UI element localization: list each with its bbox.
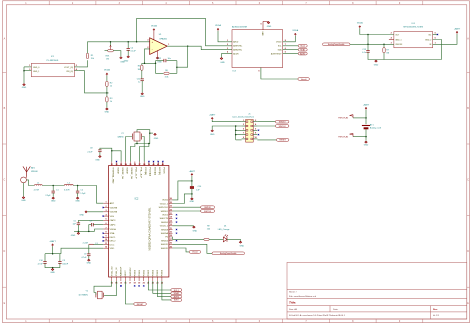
svg-text:GND: GND [220,62,225,64]
ground crystal [154,133,157,135]
op-amp negative rail pin [157,50,159,56]
svg-text:SH0DA: SH0DA [161,232,169,235]
label SWCLK at J1 [275,125,289,128]
ground C5C7 rail [77,230,79,233]
svg-text:File: nanoSense-Motion.sch: File: nanoSense-Motion.sch [289,295,317,298]
svg-text:PWR_FLAG: PWR_FLAG [338,135,348,138]
capacitor C11 [141,79,144,81]
svg-text:N52832-QFAA-CIAAE0-R7-STD-VBL: N52832-QFAA-CIAAE0-R7-STD-VBL [148,207,152,251]
capacitor C9 [87,254,90,256]
svg-text:12: 12 [105,247,107,249]
svg-text:VDD: VDD [110,248,115,250]
svg-text:P0902: P0902 [144,269,146,276]
wire ADC SDA to label [283,49,299,51]
ground IC1 [23,84,26,86]
svg-text:VDDA: VDDA [104,69,110,72]
svg-text:10: 10 [255,137,257,139]
junction opamp output [187,45,189,47]
svg-text:VDDA: VDDA [110,228,117,231]
svg-text:9: 9 [243,137,244,139]
svg-text:35: 35 [129,164,131,166]
capacitor C2 [77,186,79,191]
wire J1 pin2 to SWDIO [257,121,275,123]
svg-text:GND_1: GND_1 [33,71,39,73]
svg-text:36: 36 [134,164,136,166]
svg-text:GND: GND [154,138,159,140]
inductor L3 [89,243,94,246]
wire bottom to SDA1 [153,281,171,293]
resistor R9 [204,238,209,240]
svg-text:GND: GND [22,87,27,89]
svg-text:11: 11 [170,228,172,230]
wire ADC ALERT to label [283,53,299,55]
svg-text:9: 9 [260,24,261,26]
svg-text:DCC: DCC [110,245,115,247]
svg-text:GND: GND [240,246,245,248]
svg-text:18: 18 [134,283,136,285]
wire NRST to RESET label [125,281,133,304]
svg-text:PTA_+B_P: PTA_+B_P [139,167,142,178]
connector J1 body [246,120,254,143]
svg-text:SWDIO: SWDIO [279,121,286,123]
svg-text:10: 10 [170,232,172,234]
svg-text:13: 13 [170,220,172,222]
wire J1 odd tie [235,126,237,140]
wire MCU CAP4 to C7 [93,224,103,226]
wire +BATT rail down [52,246,54,253]
junction C2 [77,185,79,187]
svg-text:ON/OFF: ON/OFF [395,44,403,46]
no-connect MCU bottom pins [120,285,121,286]
label AnalogPowerEnable wire [350,43,394,45]
wire MCU to R9 [173,237,204,240]
antenna AE1 [23,166,30,176]
MCU bottom pin stubs [111,277,113,281]
wire C5 C7 gnd rail [77,225,79,232]
svg-text:P003[4]: P003[4] [144,167,146,175]
junction pwr flag2 [365,136,367,138]
wire R2 to junction [106,87,108,97]
label SDA1 bottom [171,292,182,295]
wire R5 top [142,62,145,64]
svg-text:3.3nH: 3.3nH [64,189,70,191]
svg-text:P0025: P0025 [163,167,165,174]
junction C13 on enable rail [367,44,369,46]
wire MCU to crystal Y1 right [105,281,117,296]
wire C13 to gnd rail [368,52,442,59]
svg-text:IC2: IC2 [135,198,139,201]
wire C9 gnd [88,256,90,259]
resistor R7 [383,44,385,47]
svg-text:5: 5 [105,219,106,221]
label AnalogPowerEnable top [323,43,351,46]
svg-text:WAKEUP: WAKEUP [120,266,123,276]
svg-text:23: 23 [170,206,172,208]
label ADR0 bottom [171,295,182,298]
svg-text:10: 10 [105,239,107,241]
wire MCU VDD to +BATT rail [61,248,103,254]
wire crystal gnd tap [150,132,153,134]
wire C4 to gnd [127,50,129,55]
flag PWR_FLAG bottom [353,136,366,138]
wire LED to gnd [227,239,241,241]
svg-text:C: C [467,179,469,182]
svg-text:38: 38 [143,164,145,166]
wire MCU VDD to +BATT C14 [173,181,192,200]
svg-text:P0900: P0900 [134,269,136,276]
crystal Y2 body [134,132,140,141]
junction pwr flag1 [365,117,367,119]
svg-text:2: 2 [255,120,256,122]
svg-text:VDD1: VDD1 [162,215,169,217]
ground MCU right pin [193,226,196,228]
svg-text:VDD0_1: VDD0_1 [160,226,169,228]
svg-text:1: 1 [105,202,106,204]
svg-text:1: 1 [243,120,244,122]
svg-text:27: 27 [170,239,172,241]
MCU top pin stubs [111,162,113,166]
svg-text:100nF: 100nF [62,264,68,266]
svg-text:5: 5 [243,128,244,130]
svg-text:VDDPA: VDDPA [110,211,118,214]
svg-text:VDDA: VDDA [292,29,298,32]
svg-text:Id: 1/1: Id: 1/1 [433,315,440,317]
svg-text:KiCad E.D.A. eeschema 5.0.2-b: KiCad E.D.A. eeschema 5.0.2-bee76a0175ub… [289,314,346,317]
svg-text:SWDIO: SWDIO [204,207,211,209]
svg-text:25: 25 [170,246,172,248]
J1 pin6 no-connect [258,130,259,131]
battery BT1 plates [362,126,370,129]
svg-text:GND: GND [190,201,195,203]
svg-text:VDDRF_0A: VDDRF_0A [121,167,124,179]
wire C2 gnd [77,193,79,197]
svg-text:ADR0: ADR0 [300,52,305,55]
svg-text:+BATT: +BATT [189,170,196,173]
ground divider [106,108,109,110]
svg-text:PCB_+B_P: PCB_+B_P [135,167,137,179]
svg-text:SH0CK: SH0CK [161,248,169,250]
svg-text:Sheet: /: Sheet: / [289,290,297,293]
wire MCU DCC to L3 [93,244,103,246]
label SDA1 [298,48,307,51]
wire IC1 gnd [23,67,25,83]
svg-text:P0904: P0904 [153,269,155,276]
svg-text:SDA1: SDA1 [300,48,305,51]
svg-text:GND: GND [140,96,145,98]
svg-text:10n: 10n [168,58,171,60]
ground C9 [88,259,91,261]
MCU right pin stubs [169,199,173,201]
ground C1 [52,197,55,199]
ground battery [365,141,368,143]
svg-text:1: 1 [168,44,169,46]
svg-text:RESET: RESET [137,304,144,306]
svg-text:1k: 1k [110,86,112,88]
svg-text:GND: GND [210,134,215,136]
op-amp power pin VDDA [153,31,155,40]
inductor L2 [64,184,73,185]
no-connect MCU left pin4 [103,215,104,216]
wire MCU CAP3 to C5 [78,220,103,222]
ADC left pin stubs [226,41,232,43]
MCU left pin stubs [103,202,108,204]
svg-text:SIP32431DR3-T1GE3: SIP32431DR3-T1GE3 [403,27,424,29]
svg-text:42: 42 [162,163,164,166]
svg-text:SH0CT5: SH0CT5 [160,218,169,220]
resistor R2 [106,81,108,86]
ground antenna [22,197,25,199]
svg-text:DVDD: DVDD [276,42,282,44]
svg-text:39: 39 [148,164,150,166]
svg-text:GND_2: GND_2 [425,39,431,41]
wire cap rail bottom [45,263,60,267]
svg-text:AINN/VIN-: AINN/VIN- [233,49,242,52]
wire bottom to SCL1 [148,281,171,290]
svg-text:B023[1]: B023[1] [158,167,160,175]
ground C8 [99,156,102,158]
wire C13 from VDDA rail [367,35,369,51]
svg-text:1.2pF: 1.2pF [80,193,86,195]
svg-text:XTAL: XTAL [110,232,116,235]
no-connect right pin10 [176,229,177,230]
svg-text:19: 19 [138,283,140,285]
svg-text:31: 31 [111,164,113,166]
svg-text:CAP3: CAP3 [110,219,116,222]
svg-text:4.7uF: 4.7uF [38,264,44,266]
svg-text:C: C [4,179,6,182]
ground ADC ADDR [220,58,223,60]
svg-text:GND_1: GND_1 [395,39,401,41]
trimmer RV1 body [108,50,114,52]
svg-text:32MHz: 32MHz [117,137,123,139]
label SCL1 bottom [171,289,182,292]
label AnalogPowerEnable at MCU [212,252,245,255]
svg-text:SCL1: SCL1 [174,290,180,292]
wire C11 to gnd [141,81,143,93]
svg-text:7: 7 [105,227,106,229]
svg-text:GND: GND [51,200,56,202]
svg-text:2.2uH: 2.2uH [83,242,89,244]
crystal Y1 body [98,291,103,299]
svg-text:Conn_02x05_Odd_Even: Conn_02x05_Odd_Even [232,117,254,119]
svg-text:4.7uF: 4.7uF [81,257,87,259]
svg-text:XTAL_SO: XTAL_SO [111,266,114,276]
resistor R3 [106,97,108,102]
regulator IC1 body [31,63,74,77]
svg-text:8: 8 [255,133,256,135]
wire R7 to gnd rail [383,53,385,60]
svg-text:20: 20 [143,283,145,285]
svg-text:GND: GND [261,31,263,36]
svg-text:9: 9 [258,71,259,73]
label Vana0 at MCU [189,251,201,254]
wire ADC DVDD to VDDA [283,36,296,42]
wire feedback to output [177,46,188,67]
svg-text:2.2uF: 2.2uF [87,151,93,153]
svg-text:ADDR: ADDR [233,52,239,55]
wire L1 to L2 [42,185,64,187]
label Vana0 below ADC [298,78,310,81]
svg-text:8: 8 [105,232,106,234]
wire J1 pin1 to +BATT [212,120,241,122]
svg-text:35: 35 [170,202,172,204]
svg-text:SWDIO: SWDIO [161,211,169,213]
wire MCU to crystal Y1 left [94,281,112,292]
wire battery top [365,110,367,125]
ADC top gnd pin [263,21,269,29]
svg-text:VSS: VSS [110,216,115,218]
ground RV1 [120,57,123,59]
wire crystal left terminal [126,137,133,162]
svg-text:GND: GND [364,144,369,146]
wire bottom to ADR0 [157,281,170,297]
svg-text:Vana0: Vana0 [301,79,308,81]
power +BATT at battery [365,107,367,110]
wire feedback loop bottom with R6 [156,72,164,74]
svg-text:11: 11 [105,243,107,245]
label SCL1 [298,44,307,47]
ground J1 [211,130,214,132]
svg-text:PL-N823-ES: PL-N823-ES [47,60,59,62]
svg-text:AnalogPowerEnable: AnalogPowerEnable [220,252,236,255]
svg-text:Rev:: Rev: [433,309,438,311]
svg-text:+BATT: +BATT [209,114,216,117]
capacitor C14 [190,186,194,188]
label SWDIO at J1 [275,120,289,123]
label RESET at J1 [276,139,289,142]
wire IC4 GND2 to rail [433,40,442,60]
svg-text:OPA365: OPA365 [159,38,168,41]
svg-text:D: D [4,250,6,253]
wire VDDA to IC4 OUT [360,28,394,34]
svg-text:VOUT_(S): VOUT_(S) [64,67,73,69]
svg-text:+BATT: +BATT [454,27,461,30]
svg-text:7: 7 [243,133,244,135]
wire C14 gnd [191,189,193,198]
svg-text:6: 6 [105,223,106,225]
svg-text:SH0D2: SH0D2 [161,240,169,242]
wire feedback loop left [155,61,157,74]
no-connect right pin27 [176,240,177,241]
svg-text:32: 32 [115,164,117,166]
wire MCU to SWDIO label [173,206,201,208]
svg-text:SWDIO2: SWDIO2 [130,267,132,276]
capacitor C4 [127,42,129,48]
svg-text:1k: 1k [110,101,112,103]
svg-text:Vana0: Vana0 [192,252,199,254]
wire MCU left gnd pin [86,211,103,213]
wire crystal right terminal [142,137,145,162]
svg-text:VDDA: VDDA [215,24,221,27]
svg-text:3: 3 [105,210,106,212]
wire RV1 right to gnd [113,51,121,57]
junction VDDA C13 tap [367,34,369,36]
wire MCU to SWCLK label [173,210,201,212]
svg-text:GND_0: GND_0 [33,67,39,69]
wire R3 to gnd [106,102,108,108]
svg-text:SH0D8: SH0D8 [161,229,169,231]
svg-text:2: 2 [227,44,228,46]
wire RV1 wiper to rail [110,42,112,46]
svg-text:P0903: P0903 [148,269,150,276]
wire C8 to pin rail [100,148,112,161]
svg-text:SWCLK: SWCLK [279,126,287,128]
wire ADC AVDD to VDDA [218,31,226,42]
svg-text:1u: 1u [138,82,140,84]
wire input rail loop to ADC AINP [137,18,232,45]
svg-text:GND: GND [71,235,76,237]
capacitor C5 [77,223,80,225]
capacitor C10 [44,254,46,262]
svg-text:VDD0: VDD0 [162,200,169,202]
wire +BATT to IC4 IN [433,34,457,45]
svg-text:15: 15 [120,283,122,285]
svg-text:D: D [467,250,469,253]
wire VOUT to R1 [79,60,88,67]
wire R5 to C11 [141,70,143,78]
svg-text:DEC2: DEC2 [110,241,117,243]
svg-text:1M: 1M [386,53,389,55]
svg-text:+BATT: +BATT [363,103,370,106]
J1 pin stubs right [253,121,257,123]
svg-text:AVDD: AVDD [233,41,239,44]
capacitor C1 [52,186,54,191]
load switch IC4 body [394,32,433,48]
capacitor C3 [59,254,61,262]
svg-text:Battery_Cell: Battery_Cell [370,127,381,130]
svg-text:GND: GND [50,272,55,274]
label SWCLK at MCU [201,210,215,213]
svg-text:9: 9 [105,236,106,238]
wire opamp output to ADC AINN [167,46,232,50]
ADC IC3 body [232,30,283,68]
svg-text:2: 2 [105,206,106,208]
wire cap rail top [45,253,61,255]
J1 odd tie stubs [236,129,242,131]
svg-text:VDD2_1: VDD2_1 [160,203,169,205]
svg-text:40: 40 [152,163,154,166]
ground C10 C3 [51,269,54,271]
svg-text:17: 17 [129,283,131,285]
svg-text:26: 26 [170,243,172,245]
J1 pin stubs left [242,121,246,123]
svg-text:28: 28 [170,235,172,237]
flag PWR_FLAG top [353,117,366,119]
wire J1 pin4 to SWCLK [257,125,275,127]
svg-text:GND: GND [105,111,110,113]
svg-text:B023[0]: B023[0] [153,167,155,175]
svg-text:SCL: SCL [278,46,282,48]
svg-text:GND: GND [21,200,26,202]
wire J1 pin10 to RESET [257,139,276,141]
svg-text:LED_Orange: LED_Orange [218,229,231,231]
no-connect MCU right middle pins [176,214,177,215]
svg-text:DEC1: DEC1 [110,237,117,239]
svg-text:GND: GND [95,159,100,161]
resistor R6 [164,72,169,74]
svg-text:ALERT/RDY: ALERT/RDY [271,52,282,55]
svg-text:22: 22 [170,209,172,211]
svg-text:15k: 15k [91,58,94,60]
ground C11 [141,93,144,95]
capacitor C7 [91,223,93,226]
svg-text:GND: GND [157,62,162,64]
svg-text:3: 3 [227,48,228,50]
wire antenna to L1 [26,180,34,186]
capacitor C13 [366,50,369,52]
power +BATT at MCU [52,244,54,247]
svg-text:SH0CK: SH0CK [161,244,169,246]
